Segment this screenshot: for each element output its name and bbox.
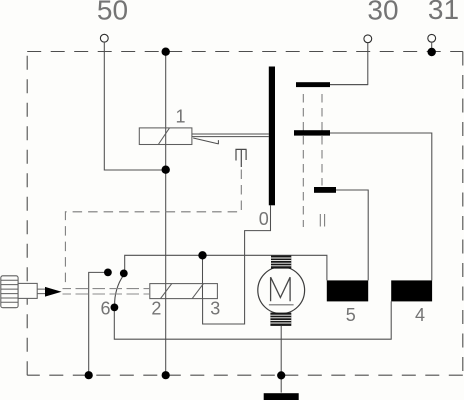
switch 6 pivot wire to block 4 <box>114 301 391 339</box>
switch 6 contact B <box>120 270 128 278</box>
armature fork symbol <box>235 149 246 167</box>
junction dot 50-wire/main line <box>162 166 170 174</box>
terminal 50 <box>100 34 108 42</box>
svg-text:31: 31 <box>428 0 459 25</box>
svg-text:0: 0 <box>259 209 269 229</box>
brush block bottom <box>270 313 291 326</box>
ignition key connector <box>1 276 45 308</box>
wire terminal 30 to contact bar <box>330 43 368 85</box>
svg-text:50: 50 <box>97 0 128 26</box>
wire upper bar to terminal 30 line <box>330 84 368 86</box>
brush block top <box>271 256 291 269</box>
contact bar middle <box>294 130 330 135</box>
wire main vertical (border to box 2 to bottom border) <box>165 52 167 376</box>
junction dot bus/winding3 <box>198 251 206 259</box>
contact bar lower <box>314 187 336 193</box>
field winding block 5 <box>327 280 368 301</box>
wire terminal 50 to coil line <box>104 42 165 170</box>
junction dot switch-A wire on bottom border <box>85 371 93 379</box>
switch 6 blade <box>115 276 123 305</box>
switch 6 contact A <box>104 269 112 277</box>
wire switch B to motor and block 5 (horizontal bus) <box>125 255 327 280</box>
junction dot main line on bottom border <box>162 371 170 379</box>
svg-text:5: 5 <box>346 305 356 325</box>
wire junction to winding 3 top <box>202 255 204 283</box>
junction dot main line on top border <box>162 48 170 56</box>
wire motor to ground <box>280 326 282 393</box>
svg-text:6: 6 <box>100 299 110 319</box>
starter motor M <box>258 267 305 314</box>
switch 6 contact A wire to ground border <box>89 272 108 375</box>
armature pawl <box>193 138 218 144</box>
terminal 31 <box>428 34 436 42</box>
solenoid winding 2-3 box <box>150 284 218 299</box>
dashed actuation linkage to winding box <box>63 289 150 294</box>
linkage end dashes below lower bar <box>320 214 324 227</box>
junction dot terminal 31 on border <box>428 48 436 56</box>
junction dot motor wire on bottom border <box>277 371 285 379</box>
relay coil 1 <box>139 128 192 145</box>
contact plate 0 (thick bar) <box>269 67 275 206</box>
actuation arrow <box>45 287 62 297</box>
wire middle bar to block 4 <box>330 133 432 280</box>
wire terminal 31 stub to border <box>431 42 433 50</box>
switch 6 pivot C <box>111 304 119 312</box>
dashed mechanical link from fork to switch area <box>65 170 241 288</box>
chassis / body dashed border <box>27 51 463 53</box>
dashed contact linkage right <box>321 94 323 186</box>
contact bar upper <box>296 82 330 87</box>
svg-text:30: 30 <box>367 0 398 26</box>
field winding block 4 <box>391 280 432 301</box>
svg-text:1: 1 <box>175 107 185 127</box>
ground plate <box>264 393 299 400</box>
wire lower bar to block 5 <box>336 190 368 280</box>
relay armature arm <box>192 134 269 137</box>
svg-text:4: 4 <box>415 305 425 325</box>
dashed contact linkage left <box>302 94 304 227</box>
svg-text:2: 2 <box>151 299 161 319</box>
terminal 30 <box>364 35 372 43</box>
wire contact 0 to winding 3 <box>203 205 271 324</box>
svg-text:3: 3 <box>210 299 220 319</box>
